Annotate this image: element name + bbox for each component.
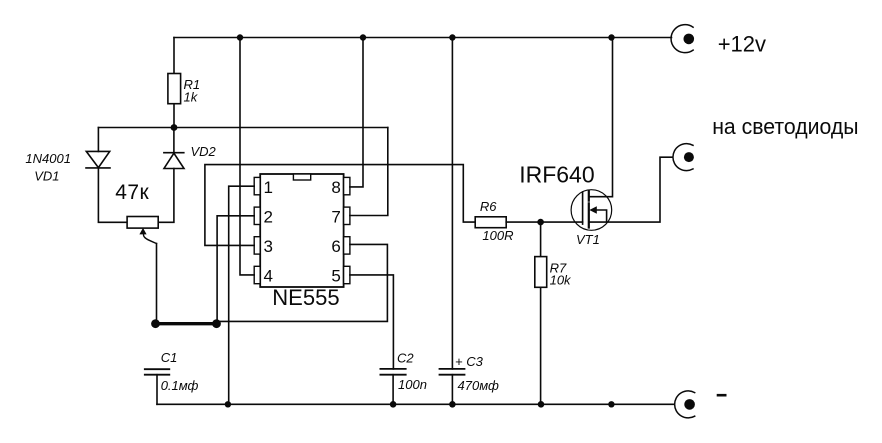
svg-text:8: 8 — [331, 178, 340, 197]
svg-text:100R: 100R — [482, 228, 513, 243]
svg-text:C2: C2 — [397, 351, 414, 366]
svg-text:0.1мф: 0.1мф — [161, 378, 199, 393]
svg-text:IRF640: IRF640 — [519, 162, 594, 188]
svg-text:1N4001: 1N4001 — [25, 151, 71, 166]
svg-text:1: 1 — [264, 178, 273, 197]
svg-text:VT1: VT1 — [576, 232, 600, 247]
svg-text:470мф: 470мф — [458, 378, 499, 393]
svg-text:100n: 100n — [398, 377, 427, 392]
svg-text:R6: R6 — [480, 199, 497, 214]
svg-text:VD1: VD1 — [34, 169, 59, 184]
svg-text:NE555: NE555 — [272, 285, 339, 310]
svg-text:2: 2 — [264, 208, 273, 227]
svg-text:+ C3: + C3 — [455, 354, 484, 369]
svg-text:47к: 47к — [115, 181, 149, 204]
svg-text:6: 6 — [331, 237, 340, 256]
svg-text:на светодиоды: на светодиоды — [712, 114, 858, 139]
svg-text:7: 7 — [331, 208, 340, 227]
svg-text:+12v: +12v — [718, 31, 766, 56]
svg-text:1k: 1k — [184, 90, 199, 105]
svg-text:4: 4 — [264, 267, 273, 286]
svg-text:5: 5 — [331, 267, 340, 286]
svg-text:C1: C1 — [161, 350, 178, 365]
svg-text:3: 3 — [264, 237, 273, 256]
svg-text:10k: 10k — [550, 273, 572, 288]
svg-text:VD2: VD2 — [191, 144, 217, 159]
